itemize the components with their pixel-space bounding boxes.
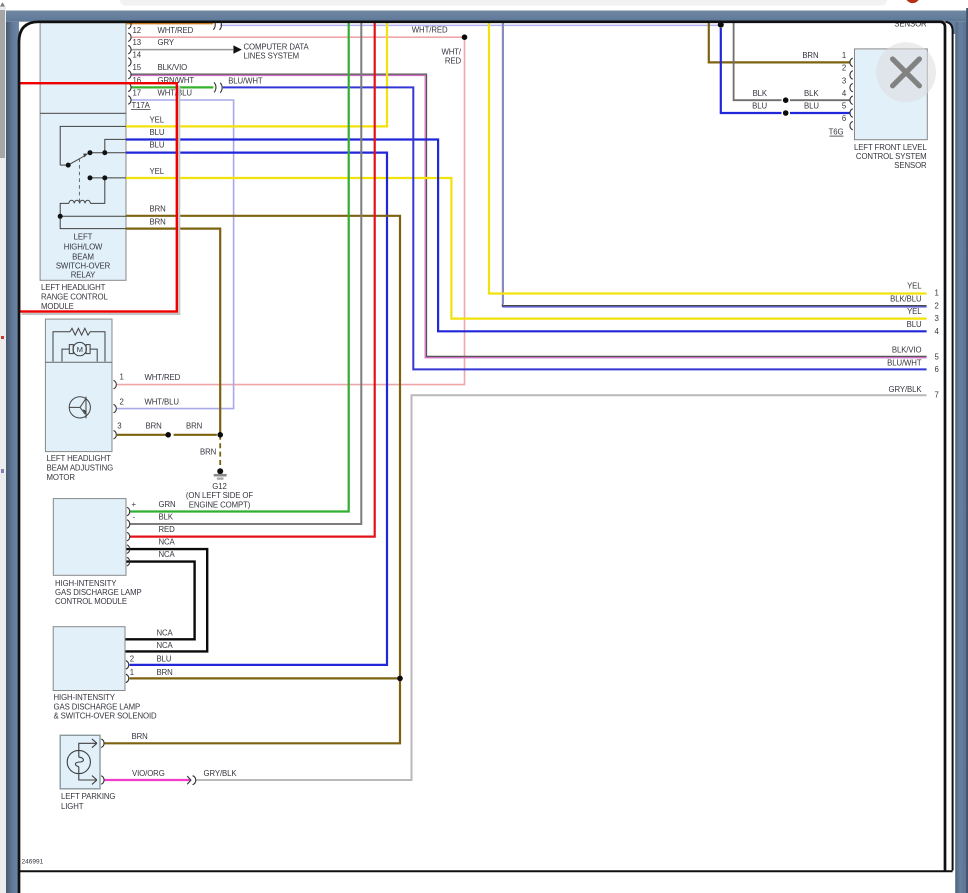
- right slate column: [955, 22, 968, 893]
- motor pin connectors: [114, 380, 117, 439]
- left slate column: [6, 22, 19, 893]
- relay contact dots: [58, 150, 108, 219]
- wire lavender WHT/BLU pin 17 to motor pin 2: [117, 100, 234, 409]
- svg-text:WHT/: WHT/: [441, 48, 461, 57]
- svg-text:GAS DISCHARGE LAMP: GAS DISCHARGE LAMP: [54, 702, 141, 711]
- svg-text:YEL: YEL: [150, 115, 165, 124]
- scrollbar mark blue: [1, 469, 4, 473]
- svg-text:NCA: NCA: [157, 641, 174, 650]
- svg-text:BLU: BLU: [157, 654, 172, 663]
- svg-text:T17A: T17A: [132, 101, 151, 110]
- L1 pin connectors: [126, 661, 129, 683]
- E1 pin connectors: [101, 739, 104, 784]
- svg-text:2: 2: [842, 64, 846, 73]
- scrollbar track: [0, 6, 6, 893]
- svg-text:BLU: BLU: [804, 102, 819, 111]
- svg-text:BLU: BLU: [907, 320, 922, 329]
- svg-text:12: 12: [133, 26, 141, 35]
- node BRN motor splice: [165, 432, 171, 438]
- svg-text:3: 3: [117, 422, 121, 431]
- svg-text:VIO/ORG: VIO/ORG: [132, 769, 165, 778]
- svg-text:CONTROL MODULE: CONTROL MODULE: [55, 597, 127, 606]
- motor M1: left headlight beam adjusting motor box: [45, 319, 112, 452]
- svg-text:& SWITCH-OVER SOLENOID: & SWITCH-OVER SOLENOID: [54, 712, 158, 721]
- wire black of BLK/VIO pin 15 to right pin 5: [131, 74, 927, 356]
- slate band top: [6, 11, 968, 22]
- page bottom separator: [19, 870, 953, 872]
- svg-text:1: 1: [935, 289, 939, 298]
- close icon X: [893, 59, 920, 86]
- svg-text:WHT/RED: WHT/RED: [412, 25, 448, 34]
- wire blue BLU relay to right connector pin 4: [126, 140, 927, 332]
- svg-text:BLK/BLU: BLK/BLU: [890, 294, 922, 303]
- svg-text:BLK/VIO: BLK/VIO: [892, 346, 922, 355]
- svg-text:BRN: BRN: [200, 448, 216, 457]
- svg-text:2: 2: [120, 398, 124, 407]
- svg-text:BRN: BRN: [157, 668, 173, 677]
- page 2 edge: [946, 22, 953, 871]
- relay switch arm: [68, 156, 85, 166]
- svg-text:LEFT HEADLIGHT: LEFT HEADLIGHT: [47, 454, 112, 463]
- svg-text:RELAY: RELAY: [71, 270, 96, 279]
- wire brown BRN solenoid pin 1: [130, 677, 401, 679]
- svg-text:GRY/BLK: GRY/BLK: [204, 769, 238, 778]
- node BLU splice: [783, 110, 789, 116]
- inline connector parking light GRY/BLK: [187, 776, 196, 785]
- svg-text:BLU: BLU: [150, 128, 165, 137]
- svg-text:WHT/RED: WHT/RED: [158, 26, 194, 35]
- svg-text:+: +: [132, 500, 137, 509]
- svg-text:7: 7: [935, 391, 939, 400]
- svg-text:COMPUTER DATA: COMPUTER DATA: [244, 42, 310, 51]
- wire magenta VIO/ORG parking light: [105, 779, 191, 781]
- wire brown BRN relay to motor splice: [126, 229, 220, 435]
- svg-text:SWITCH-OVER: SWITCH-OVER: [56, 261, 111, 270]
- relay linkage dashed: [78, 158, 80, 201]
- close icon circle: [876, 42, 936, 102]
- svg-text:WHT/RED: WHT/RED: [145, 373, 181, 382]
- svg-text:15: 15: [133, 63, 142, 72]
- svg-text:BLU/WHT: BLU/WHT: [887, 358, 922, 367]
- svg-text:CONTROL SYSTEM: CONTROL SYSTEM: [856, 152, 927, 161]
- wire dark gray BLK to sensor pin 4: [734, 23, 850, 100]
- relay caption: [56, 233, 111, 280]
- wire blue BLU to sensor pin 5: [721, 28, 850, 113]
- svg-text:6: 6: [842, 114, 846, 123]
- svg-text:1: 1: [130, 668, 134, 677]
- wire brown BRN motor pin 3: [117, 434, 217, 436]
- red avatar circle: [905, 0, 919, 3]
- inline connector pin11: [213, 20, 221, 30]
- svg-text:WHT/BLU: WHT/BLU: [158, 89, 193, 98]
- svg-text:BLU: BLU: [752, 102, 767, 111]
- motor resistor loop: [53, 328, 105, 361]
- dark right edge strip: [966, 8, 968, 893]
- lamp E1: left parking light box: [60, 735, 100, 789]
- svg-text:LEFT HEADLIGHT: LEFT HEADLIGHT: [41, 283, 106, 292]
- svg-text:HIGH/LOW: HIGH/LOW: [64, 242, 103, 251]
- relay coil: [69, 200, 90, 203]
- scrollbar mark red: [1, 336, 4, 339]
- wire yellow YEL relay pin to top: [126, 23, 387, 127]
- svg-text:GRN: GRN: [159, 500, 176, 509]
- svg-text:LEFT: LEFT: [74, 233, 93, 242]
- svg-text:6: 6: [935, 365, 939, 374]
- wire gray BLK to HID module -: [130, 23, 361, 524]
- slate patch outside page2 top curve: [944, 22, 955, 34]
- ground label G12: [186, 482, 253, 509]
- svg-text:BRN: BRN: [146, 422, 162, 431]
- svg-text:(ON LEFT SIDE OF: (ON LEFT SIDE OF: [186, 491, 253, 500]
- wire brown dashed to ground G12: [219, 435, 221, 467]
- wire brown BRN vertical to sensor pin 1: [709, 23, 850, 63]
- svg-text:2: 2: [935, 301, 939, 310]
- svg-text:GRY/BLK: GRY/BLK: [889, 385, 923, 394]
- svg-text:BLK: BLK: [753, 89, 768, 98]
- wire gray GRY module pin 13 to data bus arrow: [131, 49, 233, 51]
- right connector pin labels: [887, 282, 922, 394]
- svg-text:HIGH-INTENSITY: HIGH-INTENSITY: [54, 693, 116, 702]
- highlight rectangle shadow: [22, 86, 180, 314]
- svg-text:YEL: YEL: [907, 307, 922, 316]
- B1 pin numbers: [842, 51, 847, 123]
- motor brushes: [69, 345, 73, 354]
- svg-text:NCA: NCA: [159, 550, 176, 559]
- B1 caption: [854, 143, 927, 170]
- wire lavender long pin 11 to sensor junction: [220, 24, 719, 26]
- svg-text:BRN: BRN: [150, 204, 166, 213]
- svg-text:SENSOR: SENSOR: [894, 161, 927, 170]
- sensor B1: left front level control system sensor box: [855, 49, 928, 140]
- node BRN motor-ground junction: [217, 432, 223, 438]
- svg-text:BRN: BRN: [802, 51, 818, 60]
- svg-text:BRN: BRN: [186, 422, 202, 431]
- motor circle: [73, 342, 86, 355]
- right connector pin numbers: [935, 289, 940, 400]
- wire black NCA crossover 1: [125, 549, 207, 651]
- svg-text:YEL: YEL: [150, 167, 165, 176]
- relay K1: left high/low beam switch-over relay internals: [60, 126, 126, 228]
- wire yellow vertical to right connector pin 1: [489, 23, 927, 294]
- wire yellow YEL relay to right connector pin 3: [126, 178, 927, 319]
- svg-text:1: 1: [842, 51, 846, 60]
- svg-text:G12: G12: [212, 482, 226, 491]
- svg-text:NCA: NCA: [157, 629, 174, 638]
- svg-text:YEL: YEL: [907, 282, 922, 291]
- svg-text:BLK: BLK: [159, 513, 174, 522]
- svg-text:17: 17: [133, 89, 141, 98]
- wire green vertical to HID module +: [130, 23, 349, 512]
- svg-text:BEAM: BEAM: [72, 252, 94, 261]
- svg-text:MOTOR: MOTOR: [47, 473, 76, 482]
- module U2: high-intensity gas discharge lamp control module box: [53, 499, 126, 576]
- svg-text:2: 2: [130, 654, 134, 663]
- page 2 sliver: [941, 22, 953, 872]
- svg-text:RED: RED: [445, 57, 462, 66]
- toolbar bottom sliver: [120, 0, 887, 6]
- arrow computer data lines system: [233, 45, 241, 53]
- wire red RED to HID module: [130, 23, 375, 537]
- svg-text:RANGE CONTROL: RANGE CONTROL: [41, 293, 108, 302]
- B1 pin connectors: [850, 58, 853, 130]
- right slate below page bottom: [956, 871, 968, 893]
- inline connector pin16 BLU/WHT: [214, 82, 222, 92]
- node pin12 corner: [462, 34, 468, 40]
- node BLK splice: [783, 97, 789, 103]
- wire blue BLU relay to solenoid pin 2: [126, 153, 387, 665]
- svg-text:WHT/BLU: WHT/BLU: [145, 398, 180, 407]
- svg-text:3: 3: [842, 76, 846, 85]
- resistor zigzag: [70, 328, 93, 335]
- highlight rectangle red: [19, 83, 177, 311]
- wire black of BLK/BLU vertical to right pin 2: [502, 23, 504, 305]
- solenoid L1: high-intensity gas discharge lamp & switch-over solenoid box: [53, 627, 125, 691]
- module pin connectors: [128, 20, 131, 104]
- svg-text:3: 3: [935, 314, 939, 323]
- svg-text:BLU: BLU: [150, 141, 165, 150]
- U2 pin connectors: [127, 507, 130, 566]
- relay divider line: [40, 112, 126, 114]
- svg-text:14: 14: [133, 51, 142, 60]
- svg-text:T6G: T6G: [829, 128, 844, 137]
- wire violet of BLK/VIO pin 15: [131, 76, 927, 358]
- node BRN solenoid junction: [397, 676, 403, 682]
- wire brown BRN relay to parking light via junction: [105, 216, 401, 744]
- svg-text:BLU/WHT: BLU/WHT: [228, 76, 263, 85]
- svg-text:BRN: BRN: [150, 217, 166, 226]
- svg-text:1: 1: [120, 373, 124, 382]
- svg-text:LINES SYSTEM: LINES SYSTEM: [244, 51, 300, 60]
- svg-text:GRY: GRY: [158, 38, 175, 47]
- svg-text:BLK: BLK: [804, 89, 819, 98]
- module U1: left headlight range control module box: [40, 23, 126, 281]
- bulb symbol: [67, 739, 97, 785]
- wire pink WHT/RED module pin 12 to motor pin 1: [117, 37, 465, 384]
- svg-text:246991: 246991: [22, 859, 44, 866]
- svg-text:HIGH-INTENSITY: HIGH-INTENSITY: [55, 579, 117, 588]
- wire blue of BLK/BLU: [502, 305, 926, 306]
- wire blue BLU/WHT pin16 to right connector pin 6: [223, 87, 927, 369]
- svg-text:LEFT FRONT LEVEL: LEFT FRONT LEVEL: [854, 143, 927, 152]
- svg-text:BRN: BRN: [132, 732, 148, 741]
- scrollbar thumb: [0, 10, 5, 158]
- svg-text:LIGHT: LIGHT: [61, 802, 84, 811]
- svg-text:MODULE: MODULE: [41, 302, 74, 311]
- svg-text:13: 13: [133, 38, 141, 47]
- node pin11 top: [718, 22, 724, 28]
- svg-text:RED: RED: [159, 525, 176, 534]
- svg-text:LEFT PARKING: LEFT PARKING: [61, 792, 115, 801]
- svg-text:GAS DISCHARGE LAMP: GAS DISCHARGE LAMP: [55, 588, 142, 597]
- wire gray GRY/BLK parking light to right pin 7: [195, 395, 926, 780]
- svg-text:NCA: NCA: [159, 538, 176, 547]
- motor armature leads: [62, 349, 97, 361]
- position sensor symbol: [69, 397, 90, 419]
- ground G12 symbol: [214, 468, 227, 478]
- svg-text:BEAM ADJUSTING: BEAM ADJUSTING: [47, 464, 114, 473]
- svg-text:BLK/VIO: BLK/VIO: [158, 63, 188, 72]
- svg-text:ENGINE COMPT): ENGINE COMPT): [189, 500, 251, 509]
- wire black NCA crossover 2: [125, 562, 195, 640]
- svg-text:M: M: [77, 345, 83, 354]
- wire green GRN/WHT module pin 16: [131, 86, 213, 88]
- scrollbar up arrow: [0, 2, 5, 6]
- wire orange stub pin 11: [126, 22, 213, 24]
